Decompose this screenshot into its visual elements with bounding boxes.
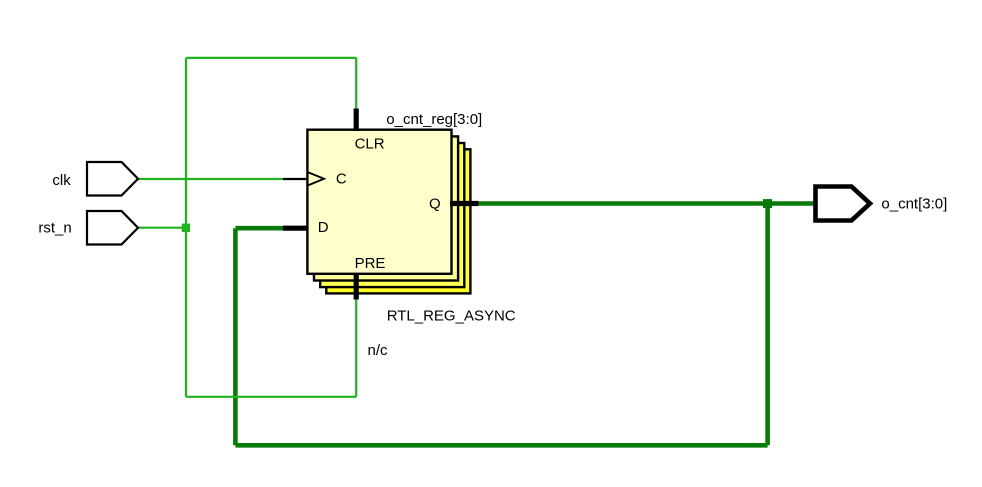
pin label PRE <box>355 255 386 272</box>
wire: rst_n net bottom horizontal to PRE <box>186 396 356 398</box>
wire: rst_n net vertical rise to PRE pin <box>355 298 357 397</box>
pin label Q <box>429 195 441 212</box>
svg-text:clk: clk <box>52 172 71 189</box>
pin stub: PRE (bottom, black, crosses stack) <box>354 273 359 300</box>
port label clk <box>52 172 71 189</box>
wire: thick bus into D horizontal <box>235 226 283 231</box>
register U1 stacked slice 4 (back) <box>326 149 470 293</box>
svg-text:CLR: CLR <box>355 136 385 153</box>
svg-text:C: C <box>336 171 347 188</box>
pin label CLR <box>355 136 385 153</box>
instance name label o_cnt_reg[3:0] <box>386 111 482 128</box>
register U1 stacked slice 3 <box>320 143 464 287</box>
wire: rst_n net horizontal <box>138 227 186 229</box>
wire: rst_n net vertical drop to CLR pin <box>355 58 357 110</box>
pin label C <box>336 171 347 188</box>
clock triangle on C pin <box>308 172 324 185</box>
wire: thick bus feedback left vertical <box>233 228 238 445</box>
cell type label RTL_REG_ASYNC <box>387 307 516 324</box>
wire: thick bus feedback right vertical <box>765 204 770 446</box>
svg-text:n/c: n/c <box>368 342 389 359</box>
svg-text:PRE: PRE <box>355 255 386 272</box>
input port rst_n symbol <box>87 211 138 245</box>
svg-text:D: D <box>318 219 329 236</box>
net label n/c <box>368 342 389 359</box>
port label rst_n <box>38 220 71 237</box>
wire: thick bus feedback bottom horizontal <box>235 443 767 448</box>
register U1 stacked slice 2 <box>314 136 458 280</box>
svg-text:Q: Q <box>429 195 441 212</box>
wire: rst_n net top horizontal to CLR <box>186 57 356 59</box>
pin stub: C (left, thin black) <box>283 178 308 180</box>
svg-text:o_cnt_reg[3:0]: o_cnt_reg[3:0] <box>386 111 482 128</box>
svg-text:o_cnt[3:0]: o_cnt[3:0] <box>881 196 947 213</box>
register U1 body RTL_REG_ASYNC o_cnt_reg[3:0] <box>307 130 451 274</box>
port label o_cnt[3:0] <box>881 196 947 213</box>
output port o_cnt[3:0] symbol (bold bus port) <box>816 187 871 221</box>
svg-text:RTL_REG_ASYNC: RTL_REG_ASYNC <box>387 307 516 324</box>
pin label D <box>318 219 329 236</box>
input port clk symbol <box>87 162 138 196</box>
pin stub: CLR (top, black) <box>354 109 359 132</box>
junction: rst_n net node <box>182 224 190 232</box>
junction: bus node on Q net <box>763 199 772 208</box>
wire: rst_n net left vertical <box>185 58 187 397</box>
wire: thick bus Q output horizontal (Q to o_cnt port) <box>477 201 816 206</box>
pin stub: D (left, black) <box>283 226 308 231</box>
wire: clk net green horizontal <box>138 178 283 180</box>
pin stub: Q (right, black, crosses stack) <box>450 201 479 206</box>
svg-text:rst_n: rst_n <box>38 220 71 237</box>
